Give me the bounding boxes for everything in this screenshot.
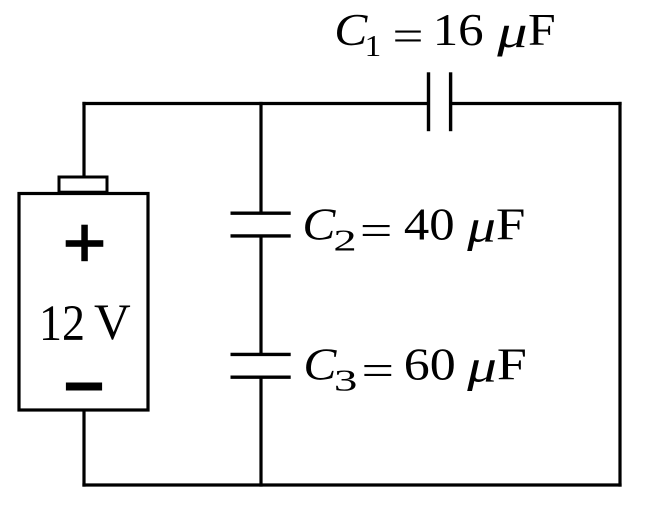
label C2 digits 40	[404, 200, 455, 250]
wire: middle branch between C2 and C3	[259, 236, 262, 355]
svg-text:C: C	[302, 200, 335, 249]
label C2 equals	[360, 207, 393, 255]
svg-text:16: 16	[433, 6, 484, 56]
wire: bottom rail	[82, 483, 621, 486]
svg-text:μ: μ	[466, 202, 496, 252]
label C1 subscript 1	[365, 28, 382, 63]
battery label V	[94, 295, 131, 351]
capacitor C1 left plate	[427, 72, 430, 131]
label C3 subscript 3	[334, 363, 358, 397]
svg-text:=: =	[360, 207, 393, 255]
battery body	[19, 194, 148, 411]
label C1 letter F	[528, 6, 556, 55]
svg-text:F: F	[496, 199, 526, 249]
label C3 mu	[466, 342, 497, 392]
svg-text:12: 12	[39, 295, 85, 352]
svg-text:=: =	[361, 347, 394, 395]
wire: middle branch lower	[259, 377, 262, 487]
label C3 letter C	[303, 340, 336, 389]
wire: left top from top rail to battery	[82, 102, 85, 178]
svg-text:2: 2	[333, 223, 356, 257]
wire: right side	[618, 102, 621, 487]
battery minus symbol	[66, 383, 102, 391]
label C1 letter C	[334, 6, 368, 55]
svg-text:40: 40	[404, 200, 455, 250]
label C1 equals	[392, 12, 423, 60]
battery plus symbol	[66, 225, 104, 262]
label C2 mu	[466, 202, 496, 252]
capacitor C1 right plate	[449, 72, 452, 131]
svg-text:F: F	[528, 6, 556, 55]
label C2 letter F	[496, 199, 526, 249]
capacitor C3 bottom plate	[231, 376, 291, 379]
capacitor C3 top plate	[231, 353, 291, 356]
svg-text:1: 1	[365, 28, 382, 63]
label C2 letter C	[302, 200, 335, 249]
wire: left bottom from battery to bottom rail	[82, 409, 85, 487]
label C1 mu	[496, 7, 527, 57]
wire: middle branch upper	[259, 102, 262, 213]
wire: top rail right segment	[451, 102, 622, 105]
svg-text:μ: μ	[466, 342, 497, 392]
label C3 equals	[361, 347, 394, 395]
label C3 letter F	[497, 339, 527, 389]
capacitor C2 top plate	[231, 211, 291, 214]
label C2 subscript 2	[333, 223, 356, 257]
svg-text:=: =	[392, 12, 423, 60]
svg-text:60: 60	[404, 339, 456, 389]
svg-text:V: V	[94, 295, 131, 351]
svg-text:C: C	[303, 340, 336, 389]
svg-text:F: F	[497, 339, 527, 389]
wire: top rail left segment	[82, 102, 429, 105]
capacitor C2 bottom plate	[231, 234, 291, 237]
svg-text:3: 3	[334, 363, 358, 397]
battery terminal cap	[59, 177, 107, 192]
svg-text:μ: μ	[496, 7, 527, 57]
label C3 digits 60	[404, 339, 456, 389]
label C1 digits 16	[433, 6, 484, 56]
svg-text:C: C	[334, 6, 368, 55]
battery label 12	[39, 295, 85, 352]
